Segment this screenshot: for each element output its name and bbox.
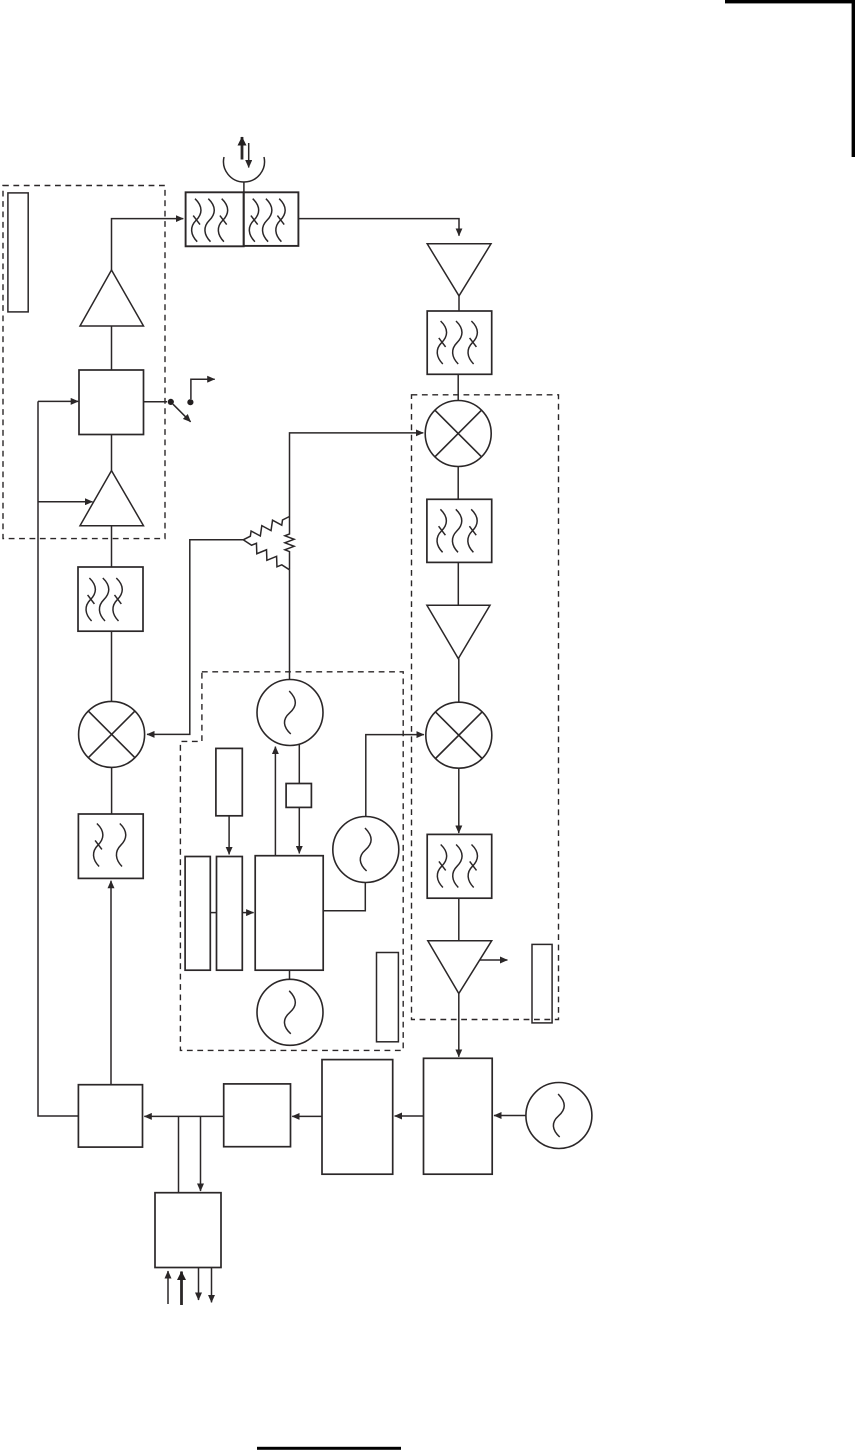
switch output arrow bbox=[191, 379, 215, 399]
wire codec up bbox=[178, 1116, 180, 1192]
antenna RX down arrow bbox=[248, 143, 250, 168]
VCO oscillator bbox=[257, 680, 323, 746]
demodulator box A bbox=[424, 1058, 493, 1174]
baseband box C bbox=[224, 1084, 291, 1147]
divider register 2 bbox=[217, 857, 243, 971]
wire filter to mixer bbox=[111, 631, 113, 701]
arrow mixer 2 to filter 3 bbox=[458, 769, 460, 833]
TX bandpass filter bbox=[78, 567, 143, 631]
antenna TX up arrow bbox=[241, 137, 244, 160]
arrow AGC out bbox=[480, 959, 507, 961]
codec input arrow 1 bbox=[167, 1271, 169, 1304]
splitter shunt resistor bbox=[285, 517, 294, 570]
duplexer RX filter bbox=[244, 192, 299, 246]
dashed box RX converter bbox=[412, 395, 559, 1020]
tick register link bbox=[210, 912, 216, 914]
TX mixer bbox=[79, 701, 145, 767]
switch throw dot bbox=[187, 399, 193, 405]
crystal oscillator bottom bbox=[257, 979, 323, 1045]
RX filter 2 bbox=[427, 499, 492, 562]
TX IF filter bbox=[78, 814, 143, 878]
amplifier PA bbox=[80, 270, 144, 326]
codec output arrow 1 bbox=[198, 1268, 200, 1301]
baseband box B bbox=[322, 1060, 393, 1175]
dashed box synthesizer bbox=[180, 672, 403, 1051]
codec box D bbox=[155, 1193, 221, 1268]
PLL block bbox=[255, 856, 323, 971]
page frame corner top-right bbox=[725, 0, 855, 157]
arrow into modulator bbox=[38, 400, 78, 402]
arrow reference to divider bbox=[228, 816, 230, 855]
arrow modulator output up bbox=[110, 881, 112, 1085]
amplifier IF 2 bbox=[428, 941, 492, 994]
wire PA input bbox=[111, 326, 113, 370]
wire splitter to VCO bbox=[289, 570, 291, 680]
wire mixer 1 to filter 2 bbox=[457, 467, 459, 500]
label plate bbox=[8, 193, 28, 312]
footer rule bbox=[257, 1447, 401, 1450]
switch pole dot bbox=[168, 399, 174, 405]
amplifier IF 1 bbox=[427, 605, 490, 658]
wire PLL to crystal bbox=[289, 970, 291, 979]
antenna bbox=[224, 157, 265, 192]
splitter resistor upper bbox=[241, 513, 291, 544]
dashed box front-end module bbox=[3, 186, 165, 539]
I/Q modulator box bbox=[78, 1085, 142, 1147]
reference oscillator box bbox=[216, 748, 242, 815]
synth label plate bbox=[377, 953, 399, 1042]
wire mixer to IF filter bbox=[111, 767, 113, 813]
divider register 1 bbox=[185, 857, 210, 971]
arrow prescaler to PLL bbox=[298, 807, 300, 853]
LO feed to RX mixer 2 bbox=[366, 735, 424, 817]
arrow box B to box C bbox=[292, 1115, 322, 1117]
amplifier LNA bbox=[427, 244, 491, 296]
splitter resistor lower bbox=[241, 536, 292, 573]
arrow into driver bbox=[38, 501, 93, 503]
codec output arrow 2 bbox=[211, 1268, 213, 1303]
wire filter 3 to amp 2 bbox=[458, 898, 460, 941]
wire filter to mixer 1 bbox=[457, 374, 459, 400]
wire PLL to second oscillator bbox=[323, 883, 365, 911]
wire modulator to switch bbox=[144, 401, 168, 403]
RX filter 3 bbox=[427, 834, 492, 898]
wire driver to modulator bbox=[111, 435, 113, 471]
arrow PLL to VCO bbox=[274, 747, 276, 856]
wire driver input bbox=[111, 526, 113, 567]
arrow box A to box B bbox=[395, 1115, 424, 1117]
wire baseband feed bbox=[38, 401, 78, 1116]
duplexer TX filter bbox=[186, 192, 244, 246]
codec input arrow 2 thick bbox=[180, 1272, 183, 1306]
LO feed to TX mixer bbox=[147, 540, 243, 735]
wire C to modulator bbox=[144, 1115, 223, 1117]
wire VCO to prescaler bbox=[298, 744, 300, 784]
second oscillator bbox=[333, 817, 399, 883]
RX mixer 2 bbox=[426, 702, 492, 768]
arrow oscillator to box A bbox=[494, 1115, 526, 1117]
wire LNA to filter bbox=[458, 296, 460, 311]
RX mixer 1 bbox=[425, 401, 491, 467]
arrow register to PLL bbox=[242, 912, 253, 914]
LO feed to RX mixer 1 bbox=[290, 433, 424, 517]
wire amp to mixer 2 bbox=[458, 659, 460, 702]
reference oscillator right bbox=[526, 1083, 592, 1149]
wire duplexer to LNA bbox=[298, 219, 459, 236]
switch lever arrow bbox=[173, 404, 191, 422]
amplifier driver bbox=[80, 471, 144, 526]
wire filter 2 to amp bbox=[457, 562, 459, 605]
arrow amp to demod bbox=[458, 994, 460, 1057]
AGC label plate bbox=[532, 944, 552, 1023]
wire PA to duplexer bbox=[112, 219, 184, 270]
RX filter 1 bbox=[427, 311, 492, 374]
modulator box bbox=[79, 370, 144, 435]
arrow into codec bbox=[200, 1116, 202, 1191]
prescaler small box bbox=[286, 784, 311, 808]
